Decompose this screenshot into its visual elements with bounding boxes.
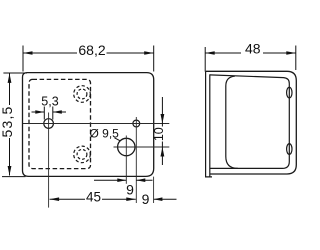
side tab oval lower	[287, 144, 292, 155]
side view lens seam top	[210, 75, 289, 168]
dimension 48	[205, 46, 296, 72]
centerline left hole vertical / extension to 45 dim	[48, 113, 50, 208]
screw boss bottom (dashed circles)	[74, 146, 91, 163]
side view mounting flange	[206, 71, 212, 176]
centerline through mounting holes	[23, 123, 170, 125]
svg-text:48: 48	[245, 41, 261, 57]
dimension 68,2	[23, 46, 154, 72]
side view lens front edge	[226, 76, 238, 168]
cable hole Ø9.5	[118, 138, 135, 155]
svg-text:9: 9	[126, 181, 134, 197]
svg-text:45: 45	[86, 190, 101, 205]
svg-text:9: 9	[142, 191, 150, 207]
svg-text:5,3: 5,3	[41, 94, 58, 108]
extension line box right edge bottom	[153, 177, 155, 203]
dimension 9 upper (cable hole to right hole)	[94, 179, 153, 181]
side view outer profile	[206, 71, 296, 174]
dimension 45	[50, 198, 136, 200]
dimension 9 lower (right hole to box edge)	[154, 198, 177, 200]
lens area hidden outline (dashed rounded rect)	[29, 79, 91, 168]
front view outline	[23, 73, 154, 177]
mounting hole left	[44, 119, 54, 129]
centerline through cable hole horizontal	[114, 146, 170, 148]
screw boss top (dashed circles)	[74, 86, 91, 103]
centerline cable hole vertical / extension	[125, 136, 127, 184]
mounting hole right	[133, 120, 140, 127]
side tab oval upper	[287, 87, 292, 98]
svg-text:10: 10	[152, 127, 166, 141]
dimension 10	[161, 97, 163, 127]
svg-text:53,5: 53,5	[0, 105, 15, 137]
dimension 5,3	[32, 107, 67, 120]
centerline right hole vertical / extension	[135, 117, 137, 203]
svg-text:68,2: 68,2	[78, 42, 105, 58]
dimension 53,5	[2, 73, 27, 177]
